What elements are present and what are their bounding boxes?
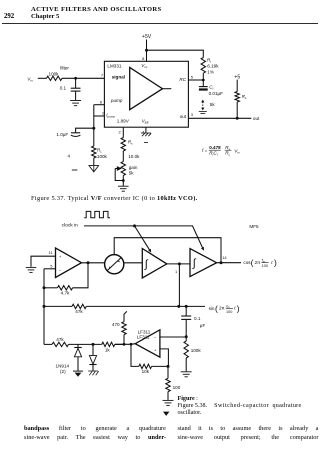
annotation 5k internal resistance arrow: [202, 102, 204, 109]
svg-text:1%: 1%: [207, 70, 214, 75]
wire +5 to RL: [236, 80, 238, 92]
svg-text:47k: 47k: [56, 337, 64, 342]
wire integrator 1 output: [167, 263, 190, 265]
svg-text:Vin: Vin: [27, 76, 33, 82]
node sine row dot 1: [177, 305, 180, 308]
wire pin 6 pump: [94, 104, 105, 106]
ground below 0.1 cap: [70, 101, 81, 106]
node sine row dot 2: [185, 305, 188, 308]
wire filter resistor to pin 7: [62, 77, 104, 79]
capacitor Ct 0.01uF: [202, 80, 204, 86]
svg-text:∫: ∫: [144, 259, 149, 271]
svg-text:11: 11: [49, 250, 54, 255]
wire LF311 output row: [115, 343, 135, 346]
node clock junction dot: [133, 224, 136, 227]
svg-text:5k: 5k: [129, 171, 135, 176]
svg-text:+5V: +5V: [142, 34, 152, 40]
wire 47k to sine output node: [86, 305, 205, 307]
wire pin 1 Ipump: [94, 115, 105, 117]
wire output to 10k: [131, 344, 139, 366]
svg-text:0.1: 0.1: [194, 316, 201, 321]
svg-text:RtCt: RtCt: [209, 151, 218, 157]
wire feedback rail from pin 14: [114, 238, 221, 263]
node +5V junction dot: [145, 49, 148, 52]
svg-text:6: 6: [100, 99, 103, 104]
resistor 4.7k feedback: [57, 286, 72, 290]
resistor 47k clamp: [52, 342, 69, 346]
ground below 5k arrow: [199, 112, 207, 114]
wire clock line: [84, 225, 193, 227]
wire +5V rail to Rt: [147, 50, 204, 57]
svg-text:0.01μF: 0.01μF: [209, 91, 224, 96]
page header running title: [31, 6, 162, 13]
op-amp A1 summing amp: [56, 248, 82, 278]
svg-text:t: t: [271, 260, 273, 265]
wire A1 output to modulator: [82, 262, 105, 264]
svg-text:μF: μF: [200, 323, 206, 328]
ground below D2 hatched: [88, 371, 98, 375]
svg-text:+: +: [154, 348, 157, 353]
ground below trimpot: [118, 186, 129, 191]
svg-text:10.0k: 10.0k: [128, 154, 140, 159]
resistor RL 100k: [92, 146, 96, 158]
body text right column line 2: [178, 434, 319, 441]
svg-text:RL: RL: [242, 94, 247, 100]
svg-text:): ): [274, 258, 277, 268]
svg-text:Vin: Vin: [234, 149, 240, 155]
wire pump bus down: [93, 105, 95, 129]
wire pin 1 down to sine row: [178, 264, 180, 307]
resistor 47k sine feedback: [72, 304, 86, 308]
svg-text:47k: 47k: [75, 309, 83, 314]
svg-text:2π: 2π: [255, 260, 261, 265]
clock square wave symbol: [84, 211, 110, 217]
wire pin 5 RC: [188, 79, 203, 81]
comparator triangle inside LM331: [130, 68, 163, 110]
annotation stray triangle mark: [163, 412, 169, 416]
svg-text:gain: gain: [129, 165, 138, 170]
svg-text:470: 470: [112, 322, 120, 327]
svg-text:signal: signal: [112, 74, 125, 79]
svg-text:5: 5: [191, 74, 194, 79]
node pin 1 junction dot: [178, 262, 181, 265]
wire clock to integrator 1 arrow: [135, 226, 150, 250]
annotation stray dash mark: [72, 169, 78, 171]
resistor RL pullup: [235, 92, 239, 103]
svg-text:1.0μF: 1.0μF: [56, 132, 68, 137]
wire pin 4 to ground: [145, 127, 147, 132]
op-amp integrator 2: [190, 249, 217, 277]
svg-text:7: 7: [101, 73, 104, 78]
header rule: [2, 23, 318, 25]
capacitor 0.1uF coupling: [185, 306, 187, 315]
wire summing bus to 47k: [44, 305, 72, 307]
modulator polarity switch circle: [105, 255, 124, 274]
svg-text:Vcc: Vcc: [141, 63, 148, 69]
svg-text:out: out: [253, 116, 260, 121]
node comparator input dot: [185, 335, 188, 338]
wire A1 output down to 4.7k: [73, 263, 88, 288]
svg-text:−: −: [59, 267, 62, 272]
svg-text:1.89V: 1.89V: [117, 119, 130, 124]
node out junction dot: [236, 117, 239, 120]
ground pin 4 hatched: [141, 133, 151, 143]
diode D1 1N914: [77, 344, 79, 347]
svg-text:LF311: LF311: [138, 329, 151, 334]
node pump bus junction dot: [92, 127, 95, 130]
svg-text:VEE: VEE: [142, 119, 150, 125]
wire A1 plus input to ground: [31, 256, 56, 267]
wire LF311 plus input: [160, 349, 169, 367]
wire cap node to LF311 minus: [160, 336, 186, 338]
svg-text:4: 4: [68, 153, 71, 158]
wire 4.7k to summing bus: [44, 287, 57, 289]
svg-text:8: 8: [142, 56, 145, 61]
svg-text:100: 100: [226, 310, 232, 314]
wire pump bus to RL 100k: [93, 128, 95, 146]
wire integrator 2 output: [217, 262, 241, 264]
svg-text:1N914: 1N914: [56, 363, 70, 368]
resistor Rs 10.0k: [121, 138, 125, 152]
svg-text:100k: 100k: [49, 71, 60, 76]
wire RL 100k to ground: [93, 158, 95, 165]
svg-text:1: 1: [175, 269, 178, 274]
resistor 10k hysteresis: [139, 364, 152, 368]
wire trimpot bottom: [122, 176, 124, 186]
svg-text:LF311: LF311: [137, 335, 150, 340]
svg-text:RC: RC: [179, 77, 186, 82]
wire Rs to gain trimpot: [122, 151, 124, 162]
node LF311 output dot: [130, 343, 133, 346]
svg-text:100: 100: [262, 264, 268, 268]
svg-text:2π: 2π: [219, 306, 225, 311]
wire 10k to plus node: [152, 365, 169, 367]
svg-text:(: (: [215, 303, 218, 313]
node filter junction dot: [74, 77, 77, 80]
node A1 output junction dot: [87, 261, 90, 264]
svg-text:out: out: [180, 114, 187, 119]
svg-text:3: 3: [191, 112, 194, 117]
body text right column line 1: [178, 425, 319, 432]
resistor Rt 6.19k 1%: [201, 58, 205, 74]
svg-text:clock in: clock in: [62, 223, 79, 229]
svg-text:f =: f =: [202, 148, 208, 153]
svg-text:2: 2: [118, 129, 121, 134]
svg-text:∫: ∫: [192, 257, 197, 269]
svg-text:Ipump: Ipump: [106, 113, 115, 119]
chapter label: [31, 13, 59, 20]
svg-text:(: (: [251, 258, 254, 268]
svg-text:Rs: Rs: [128, 140, 133, 146]
wire clock to integrator 2 arrow: [193, 226, 203, 248]
resistor 100 to ground: [167, 366, 169, 378]
svg-text:Rt: Rt: [207, 58, 211, 64]
wire RL to out node: [236, 102, 238, 118]
svg-text:100: 100: [173, 385, 181, 390]
op-amp integrator 1: [142, 249, 167, 279]
node diode row junction dot: [92, 343, 95, 346]
wire 47k to diode row: [69, 343, 102, 345]
wire +5V vertical to Vcc pin 8: [146, 40, 148, 62]
body text left column line 1: [24, 425, 166, 432]
svg-text:sin: sin: [209, 306, 215, 311]
svg-text:−: −: [154, 335, 157, 340]
body text left column line 2: [24, 434, 166, 441]
node RC junction dot: [202, 79, 205, 82]
svg-text:pump: pump: [110, 98, 123, 103]
svg-text:RL: RL: [97, 148, 102, 154]
ground below 100k: [181, 372, 192, 377]
svg-text:1k: 1k: [105, 348, 111, 353]
wire to 1.0uF capacitor: [76, 128, 94, 132]
svg-text:14: 14: [222, 255, 227, 260]
resistor 470 pullup: [122, 322, 126, 335]
resistor 100k comparator input: [184, 341, 188, 358]
node pin 14 junction dot: [220, 261, 223, 264]
svg-text:Ct: Ct: [209, 85, 213, 91]
wire modulator to integrator 1: [124, 262, 143, 264]
ground below RL 100k: [89, 166, 99, 172]
wire Vin to filter resistor: [38, 77, 47, 79]
svg-text:10k: 10k: [142, 369, 150, 374]
svg-text:+: +: [59, 254, 62, 259]
wire pin 2 down: [122, 127, 124, 137]
capacitor 0.1 filter cap: [75, 78, 77, 88]
trimpot gain 5k: [121, 162, 125, 176]
wire trimpot wiper loop: [115, 169, 123, 181]
node plus feedback dot: [167, 365, 170, 368]
svg-text:0.478: 0.478: [209, 145, 221, 150]
ground below D1: [73, 370, 83, 372]
node trimpot junction dot: [122, 179, 125, 182]
svg-text:4.7k: 4.7k: [61, 291, 70, 296]
wire 1k to output node: [115, 343, 124, 345]
wire summing bus corner to 47k: [44, 343, 52, 345]
caption figure 5.38 line 3: [178, 410, 202, 416]
svg-text:MF5: MF5: [249, 224, 259, 229]
svg-text:(2): (2): [60, 369, 66, 374]
ground below 100: [163, 400, 174, 405]
capacitor 1.0uF: [71, 132, 80, 134]
svg-text:RL: RL: [225, 151, 230, 157]
resistor 1k clamp: [102, 342, 115, 346]
svg-text:+5: +5: [234, 74, 240, 80]
node summing bus dot at 4.7k: [43, 286, 46, 289]
caption figure 5.38 line 2: [178, 403, 302, 409]
caption figure 5.37: [31, 195, 198, 202]
svg-text:): ): [237, 303, 240, 313]
svg-text:100k: 100k: [97, 154, 108, 159]
node 470 junction dot: [123, 343, 126, 346]
svg-text:5: 5: [50, 263, 53, 268]
wire comparator output stub: [163, 88, 172, 90]
svg-text:0.1: 0.1: [60, 86, 67, 91]
node summing bus dot at 47k: [43, 305, 46, 308]
page number 292: [4, 13, 14, 20]
comparator U2 LF311: [135, 330, 160, 357]
diode D2 1N914: [92, 344, 94, 355]
svg-text:filter: filter: [60, 66, 69, 71]
caption figure 5.38 bold lead: [178, 396, 198, 402]
wire summing bus vertical: [43, 269, 45, 345]
wire Rt to pin 5 RC node: [202, 73, 204, 80]
op-amp U1 LM331 box: [104, 61, 188, 127]
svg-text:5k: 5k: [210, 102, 216, 107]
wire pin 3 out row: [188, 117, 251, 119]
resistor filter 100k: [47, 76, 63, 80]
svg-text:6.19k: 6.19k: [207, 64, 219, 69]
svg-text:LM331: LM331: [107, 63, 121, 68]
ground at A1 plus input: [26, 267, 36, 272]
svg-text:100k: 100k: [191, 348, 202, 353]
wire A1 minus input: [44, 268, 56, 270]
